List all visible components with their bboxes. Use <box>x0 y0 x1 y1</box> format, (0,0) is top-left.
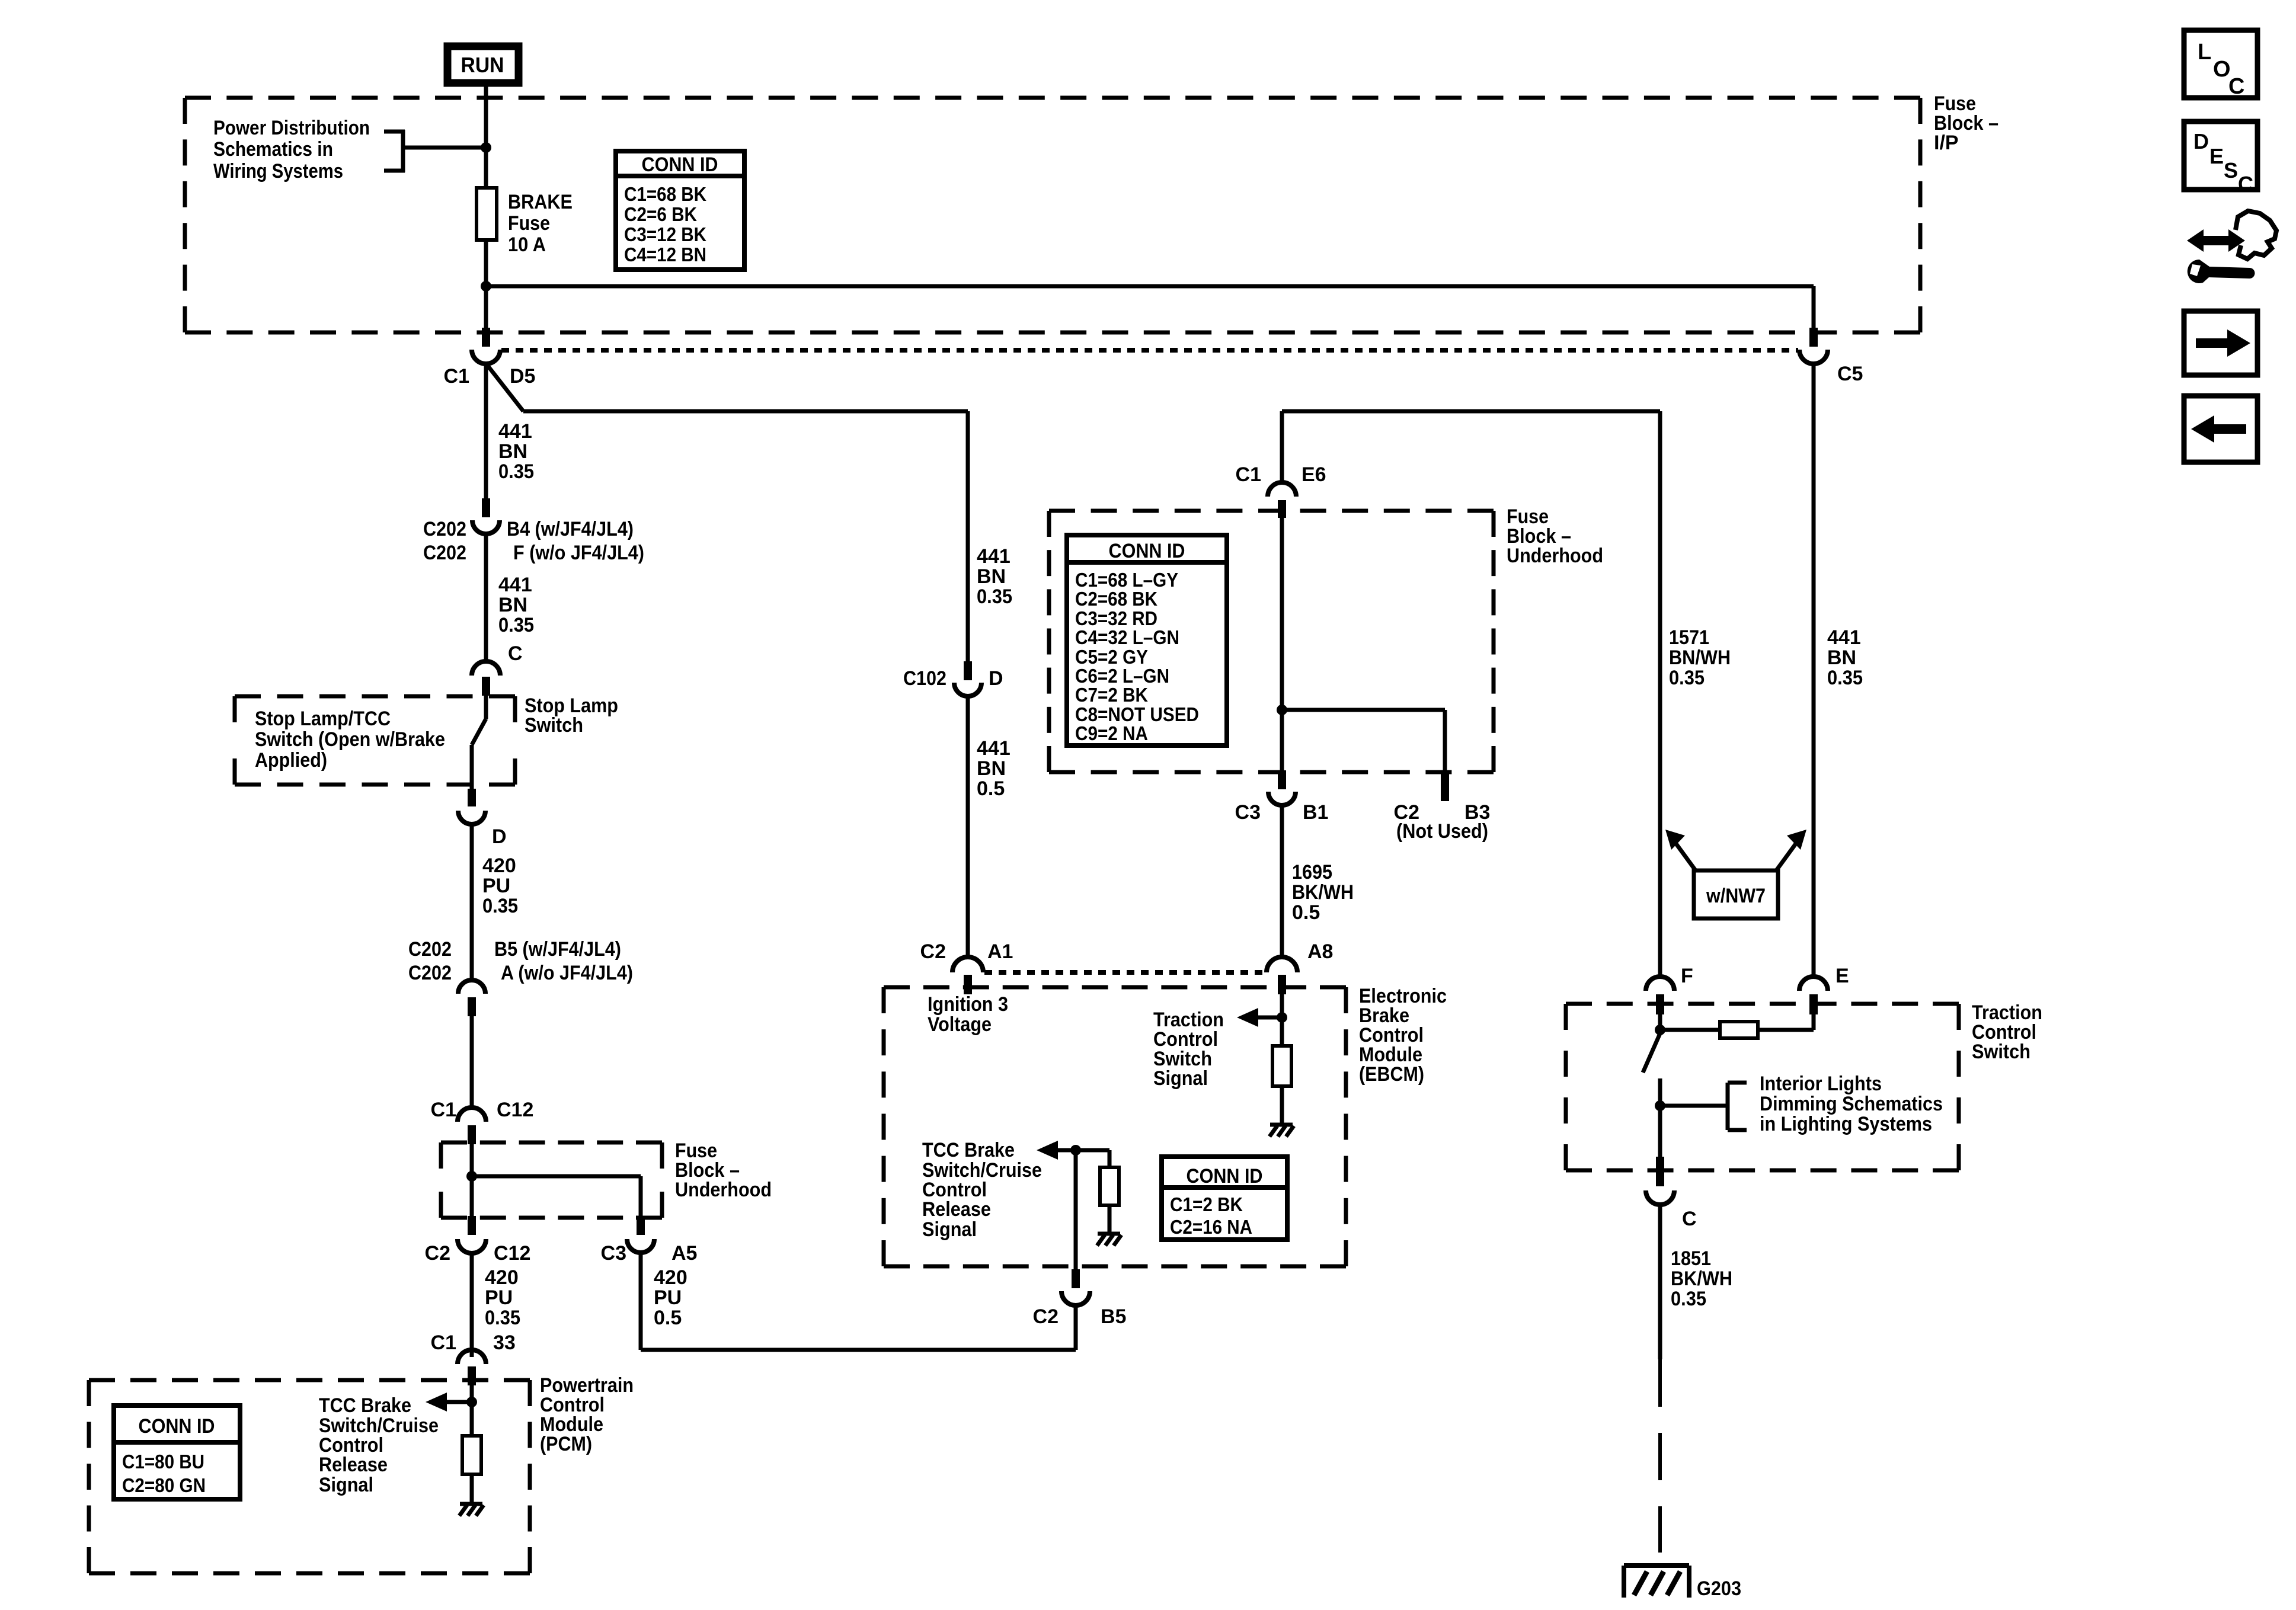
svg-text:33: 33 <box>493 1331 516 1354</box>
svg-text:C: C <box>508 642 523 665</box>
svg-text:A5: A5 <box>671 1242 697 1265</box>
svg-text:C4=12 BN: C4=12 BN <box>624 244 706 265</box>
svg-text:0.5: 0.5 <box>1292 901 1320 924</box>
svg-text:(EBCM): (EBCM) <box>1359 1063 1424 1086</box>
svg-text:RUN: RUN <box>461 53 504 77</box>
svg-text:C202: C202 <box>423 518 466 540</box>
svg-text:BN/WH: BN/WH <box>1669 646 1731 669</box>
svg-text:D5: D5 <box>510 365 535 388</box>
svg-text:441: 441 <box>977 545 1011 568</box>
svg-text:E: E <box>2209 144 2224 168</box>
svg-text:C1=2 BK: C1=2 BK <box>1170 1193 1243 1215</box>
svg-text:441: 441 <box>498 420 532 443</box>
svg-text:C: C <box>2228 74 2244 99</box>
svg-text:C3: C3 <box>1235 801 1261 824</box>
svg-text:in Lighting Systems: in Lighting Systems <box>1760 1113 1932 1135</box>
svg-text:C2=16 NA: C2=16 NA <box>1170 1216 1252 1238</box>
svg-text:Wiring Systems: Wiring Systems <box>213 160 343 183</box>
svg-text:441: 441 <box>498 574 532 596</box>
svg-text:C202: C202 <box>423 542 466 564</box>
svg-text:C: C <box>1682 1208 1697 1230</box>
svg-text:B4 (w/JF4/JL4): B4 (w/JF4/JL4) <box>507 518 634 540</box>
svg-text:C1: C1 <box>1236 463 1261 486</box>
svg-text:Release: Release <box>922 1198 991 1221</box>
svg-text:10 A: 10 A <box>508 233 546 256</box>
svg-text:F (w/o JF4/JL4): F (w/o JF4/JL4) <box>513 542 644 564</box>
svg-text:Stop Lamp/TCC: Stop Lamp/TCC <box>255 708 391 730</box>
svg-text:B5 (w/JF4/JL4): B5 (w/JF4/JL4) <box>494 938 621 961</box>
svg-text:Signal: Signal <box>922 1218 977 1241</box>
svg-text:w/NW7: w/NW7 <box>1706 885 1766 907</box>
svg-text:S: S <box>2224 158 2238 183</box>
svg-text:C1: C1 <box>431 1099 456 1121</box>
svg-text:Switch: Switch <box>525 714 583 737</box>
svg-text:0.35: 0.35 <box>498 614 534 636</box>
svg-text:C1=68 BK: C1=68 BK <box>624 183 706 205</box>
svg-text:B1: B1 <box>1303 801 1328 824</box>
svg-text:Fuse: Fuse <box>508 212 550 235</box>
svg-text:Switch: Switch <box>1972 1041 2030 1063</box>
svg-text:Signal: Signal <box>319 1474 373 1496</box>
svg-text:D: D <box>2193 129 2209 153</box>
svg-text:Underhood: Underhood <box>1507 545 1603 567</box>
svg-text:0.35: 0.35 <box>482 895 518 917</box>
svg-text:L: L <box>2198 40 2211 65</box>
svg-text:A8: A8 <box>1307 940 1333 963</box>
svg-text:C3=12 BK: C3=12 BK <box>624 223 706 245</box>
svg-text:TCC Brake: TCC Brake <box>319 1394 411 1417</box>
svg-text:B5: B5 <box>1101 1305 1126 1328</box>
svg-text:441: 441 <box>1827 626 1861 649</box>
svg-text:C1=80 BU: C1=80 BU <box>122 1451 204 1473</box>
svg-text:G203: G203 <box>1697 1577 1741 1600</box>
svg-text:420: 420 <box>482 854 516 877</box>
svg-text:CONN ID: CONN ID <box>1109 540 1185 562</box>
svg-text:C9=2 NA: C9=2 NA <box>1075 722 1148 744</box>
svg-text:C202: C202 <box>408 962 452 984</box>
svg-text:C: C <box>2238 172 2253 196</box>
svg-text:E: E <box>1835 965 1849 987</box>
svg-text:0.35: 0.35 <box>485 1307 520 1329</box>
svg-text:C1: C1 <box>431 1331 456 1354</box>
svg-text:CONN ID: CONN ID <box>139 1415 215 1438</box>
svg-text:A1: A1 <box>987 940 1013 963</box>
svg-text:F: F <box>1681 965 1693 987</box>
svg-text:(PCM): (PCM) <box>540 1433 592 1455</box>
svg-text:C5: C5 <box>1837 363 1863 385</box>
svg-text:Dimming Schematics: Dimming Schematics <box>1760 1093 1943 1115</box>
svg-text:PU: PU <box>654 1286 682 1309</box>
svg-text:E6: E6 <box>1302 463 1326 486</box>
svg-text:CONN ID: CONN ID <box>642 153 718 176</box>
svg-text:0.35: 0.35 <box>1671 1288 1706 1310</box>
svg-text:Power Distribution: Power Distribution <box>213 117 370 139</box>
svg-text:1695: 1695 <box>1292 861 1332 884</box>
svg-text:PU: PU <box>482 875 510 897</box>
svg-text:Ignition 3: Ignition 3 <box>928 993 1008 1016</box>
svg-text:BK/WH: BK/WH <box>1292 881 1354 904</box>
svg-text:420: 420 <box>654 1266 687 1289</box>
svg-text:BN: BN <box>977 565 1006 588</box>
svg-text:Underhood: Underhood <box>675 1179 772 1201</box>
svg-text:0.35: 0.35 <box>977 585 1012 608</box>
svg-text:C2=6 BK: C2=6 BK <box>624 203 697 225</box>
svg-text:Release: Release <box>319 1454 388 1476</box>
svg-text:BRAKE: BRAKE <box>508 191 573 213</box>
svg-text:BK/WH: BK/WH <box>1671 1267 1732 1290</box>
svg-text:C1: C1 <box>444 365 469 388</box>
svg-text:C12: C12 <box>494 1242 530 1265</box>
svg-text:C4=32 L–GN: C4=32 L–GN <box>1075 626 1179 648</box>
svg-text:C202: C202 <box>408 938 452 961</box>
svg-text:1571: 1571 <box>1669 626 1709 649</box>
svg-text:441: 441 <box>977 737 1011 760</box>
svg-text:420: 420 <box>485 1266 519 1289</box>
svg-text:BN: BN <box>977 757 1006 780</box>
svg-text:C2: C2 <box>920 940 946 963</box>
svg-text:0.35: 0.35 <box>1669 667 1705 689</box>
svg-text:Interior Lights: Interior Lights <box>1760 1073 1882 1095</box>
svg-text:C2=68 BK: C2=68 BK <box>1075 588 1157 610</box>
svg-text:BN: BN <box>498 594 527 616</box>
svg-text:TCC Brake: TCC Brake <box>922 1139 1015 1161</box>
svg-text:Applied): Applied) <box>255 749 327 772</box>
svg-text:0.35: 0.35 <box>498 460 534 483</box>
svg-text:Signal: Signal <box>1153 1067 1208 1090</box>
svg-text:A (w/o JF4/JL4): A (w/o JF4/JL4) <box>501 962 633 984</box>
svg-text:C3: C3 <box>601 1242 626 1265</box>
svg-text:C2: C2 <box>1033 1305 1059 1328</box>
svg-text:BN: BN <box>498 440 527 463</box>
svg-text:C7=2 BK: C7=2 BK <box>1075 684 1148 706</box>
svg-text:Voltage: Voltage <box>928 1013 992 1036</box>
svg-text:0.5: 0.5 <box>654 1307 682 1329</box>
svg-text:Switch (Open w/Brake: Switch (Open w/Brake <box>255 728 445 751</box>
svg-text:D: D <box>989 667 1003 690</box>
svg-text:BN: BN <box>1827 646 1856 669</box>
svg-text:C12: C12 <box>497 1099 533 1121</box>
svg-text:I/P: I/P <box>1934 132 1959 154</box>
svg-text:C2: C2 <box>425 1242 450 1265</box>
svg-text:0.5: 0.5 <box>977 777 1005 800</box>
svg-text:Schematics in: Schematics in <box>213 138 333 161</box>
svg-text:C102: C102 <box>903 667 946 690</box>
svg-text:0.35: 0.35 <box>1827 667 1863 689</box>
svg-text:C2=80 GN: C2=80 GN <box>122 1474 206 1496</box>
svg-text:PU: PU <box>485 1286 513 1309</box>
svg-text:CONN ID: CONN ID <box>1187 1165 1263 1188</box>
svg-text:D: D <box>492 825 507 848</box>
svg-text:(Not Used): (Not Used) <box>1396 820 1488 843</box>
svg-text:1851: 1851 <box>1671 1247 1711 1270</box>
